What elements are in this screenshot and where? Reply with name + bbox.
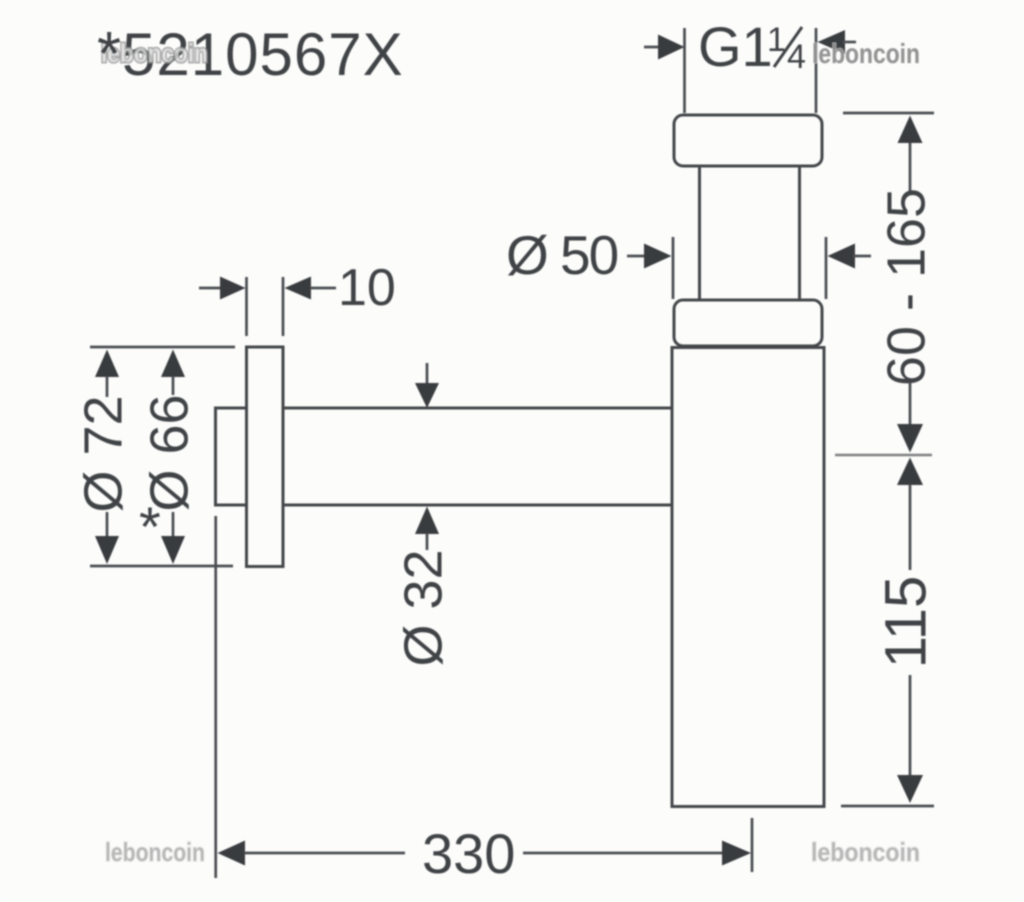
riser pipe xyxy=(700,160,800,305)
dimension Ø32: bottom arrow up xyxy=(415,507,439,535)
dimension 60-165: bottom arrow down xyxy=(897,424,923,453)
top nut flange G1 1/4 xyxy=(674,115,822,166)
dimension Ø32: top arrow down xyxy=(426,363,429,385)
wall flange (escutcheon) xyxy=(247,347,284,567)
dimension Ø72: bottom arrow xyxy=(95,536,119,564)
dimension G1 1/4: right extension line xyxy=(815,28,818,113)
svg-text:*: * xyxy=(97,20,121,89)
dimension 115: bottom arrow down xyxy=(897,775,923,803)
dimension 60-165: top extension line xyxy=(843,112,934,115)
svg-text:Ø 72: Ø 72 xyxy=(73,395,133,512)
collar ring xyxy=(674,300,822,346)
dimension G1 1/4: left arrow xyxy=(644,46,661,49)
dimension 115: top arrow up xyxy=(897,458,923,486)
svg-text:leboncoin: leboncoin xyxy=(105,837,205,867)
svg-text:115: 115 xyxy=(873,576,938,668)
svg-text:Ø 32: Ø 32 xyxy=(393,549,453,666)
dimension 330: left extension line xyxy=(214,516,217,878)
dimension Ø72/Ø66: bottom extension line xyxy=(90,565,233,568)
svg-text:leboncoin: leboncoin xyxy=(811,837,920,867)
dimension Ø50: left arrow xyxy=(627,255,646,258)
dimension 10: left arrow xyxy=(199,287,222,290)
dimension Ø66: top arrow xyxy=(161,350,185,378)
svg-text:leboncoin: leboncoin xyxy=(812,38,920,69)
horizontal outlet pipe xyxy=(216,408,673,505)
divider tick xyxy=(835,454,932,456)
dimension 10: right arrow xyxy=(285,277,312,300)
dimension G1 1/4: left extension line xyxy=(683,28,686,113)
svg-text:Ø 50: Ø 50 xyxy=(506,224,618,286)
svg-text:4: 4 xyxy=(787,38,806,76)
svg-text:Ø 66: Ø 66 xyxy=(139,394,199,511)
svg-text:10: 10 xyxy=(338,259,396,317)
svg-text:G1: G1 xyxy=(698,15,773,78)
dimension Ø50: left extension line xyxy=(672,237,675,299)
svg-text:*: * xyxy=(139,495,161,558)
dimension 60-165: top arrow up xyxy=(898,116,923,144)
dimension Ø66: bottom arrow xyxy=(161,536,185,564)
trap body xyxy=(672,348,824,807)
dimension 330: left arrow xyxy=(218,841,246,866)
svg-text:60 - 165: 60 - 165 xyxy=(876,188,936,386)
dimension Ø72/Ø66: top extension line xyxy=(90,346,235,349)
dimension 330: right arrow xyxy=(722,841,751,866)
dimension 10: extension lines xyxy=(245,277,248,336)
dimension Ø50: right arrow xyxy=(828,244,856,269)
dimension 330: right tick xyxy=(751,818,754,872)
svg-text:330: 330 xyxy=(422,822,515,885)
dimension 115: bottom extension line xyxy=(841,805,934,808)
dimension Ø72: top arrow xyxy=(95,350,119,378)
dimension G1 1/4: right arrow xyxy=(818,30,846,54)
dimension Ø50: right extension line xyxy=(825,237,828,299)
